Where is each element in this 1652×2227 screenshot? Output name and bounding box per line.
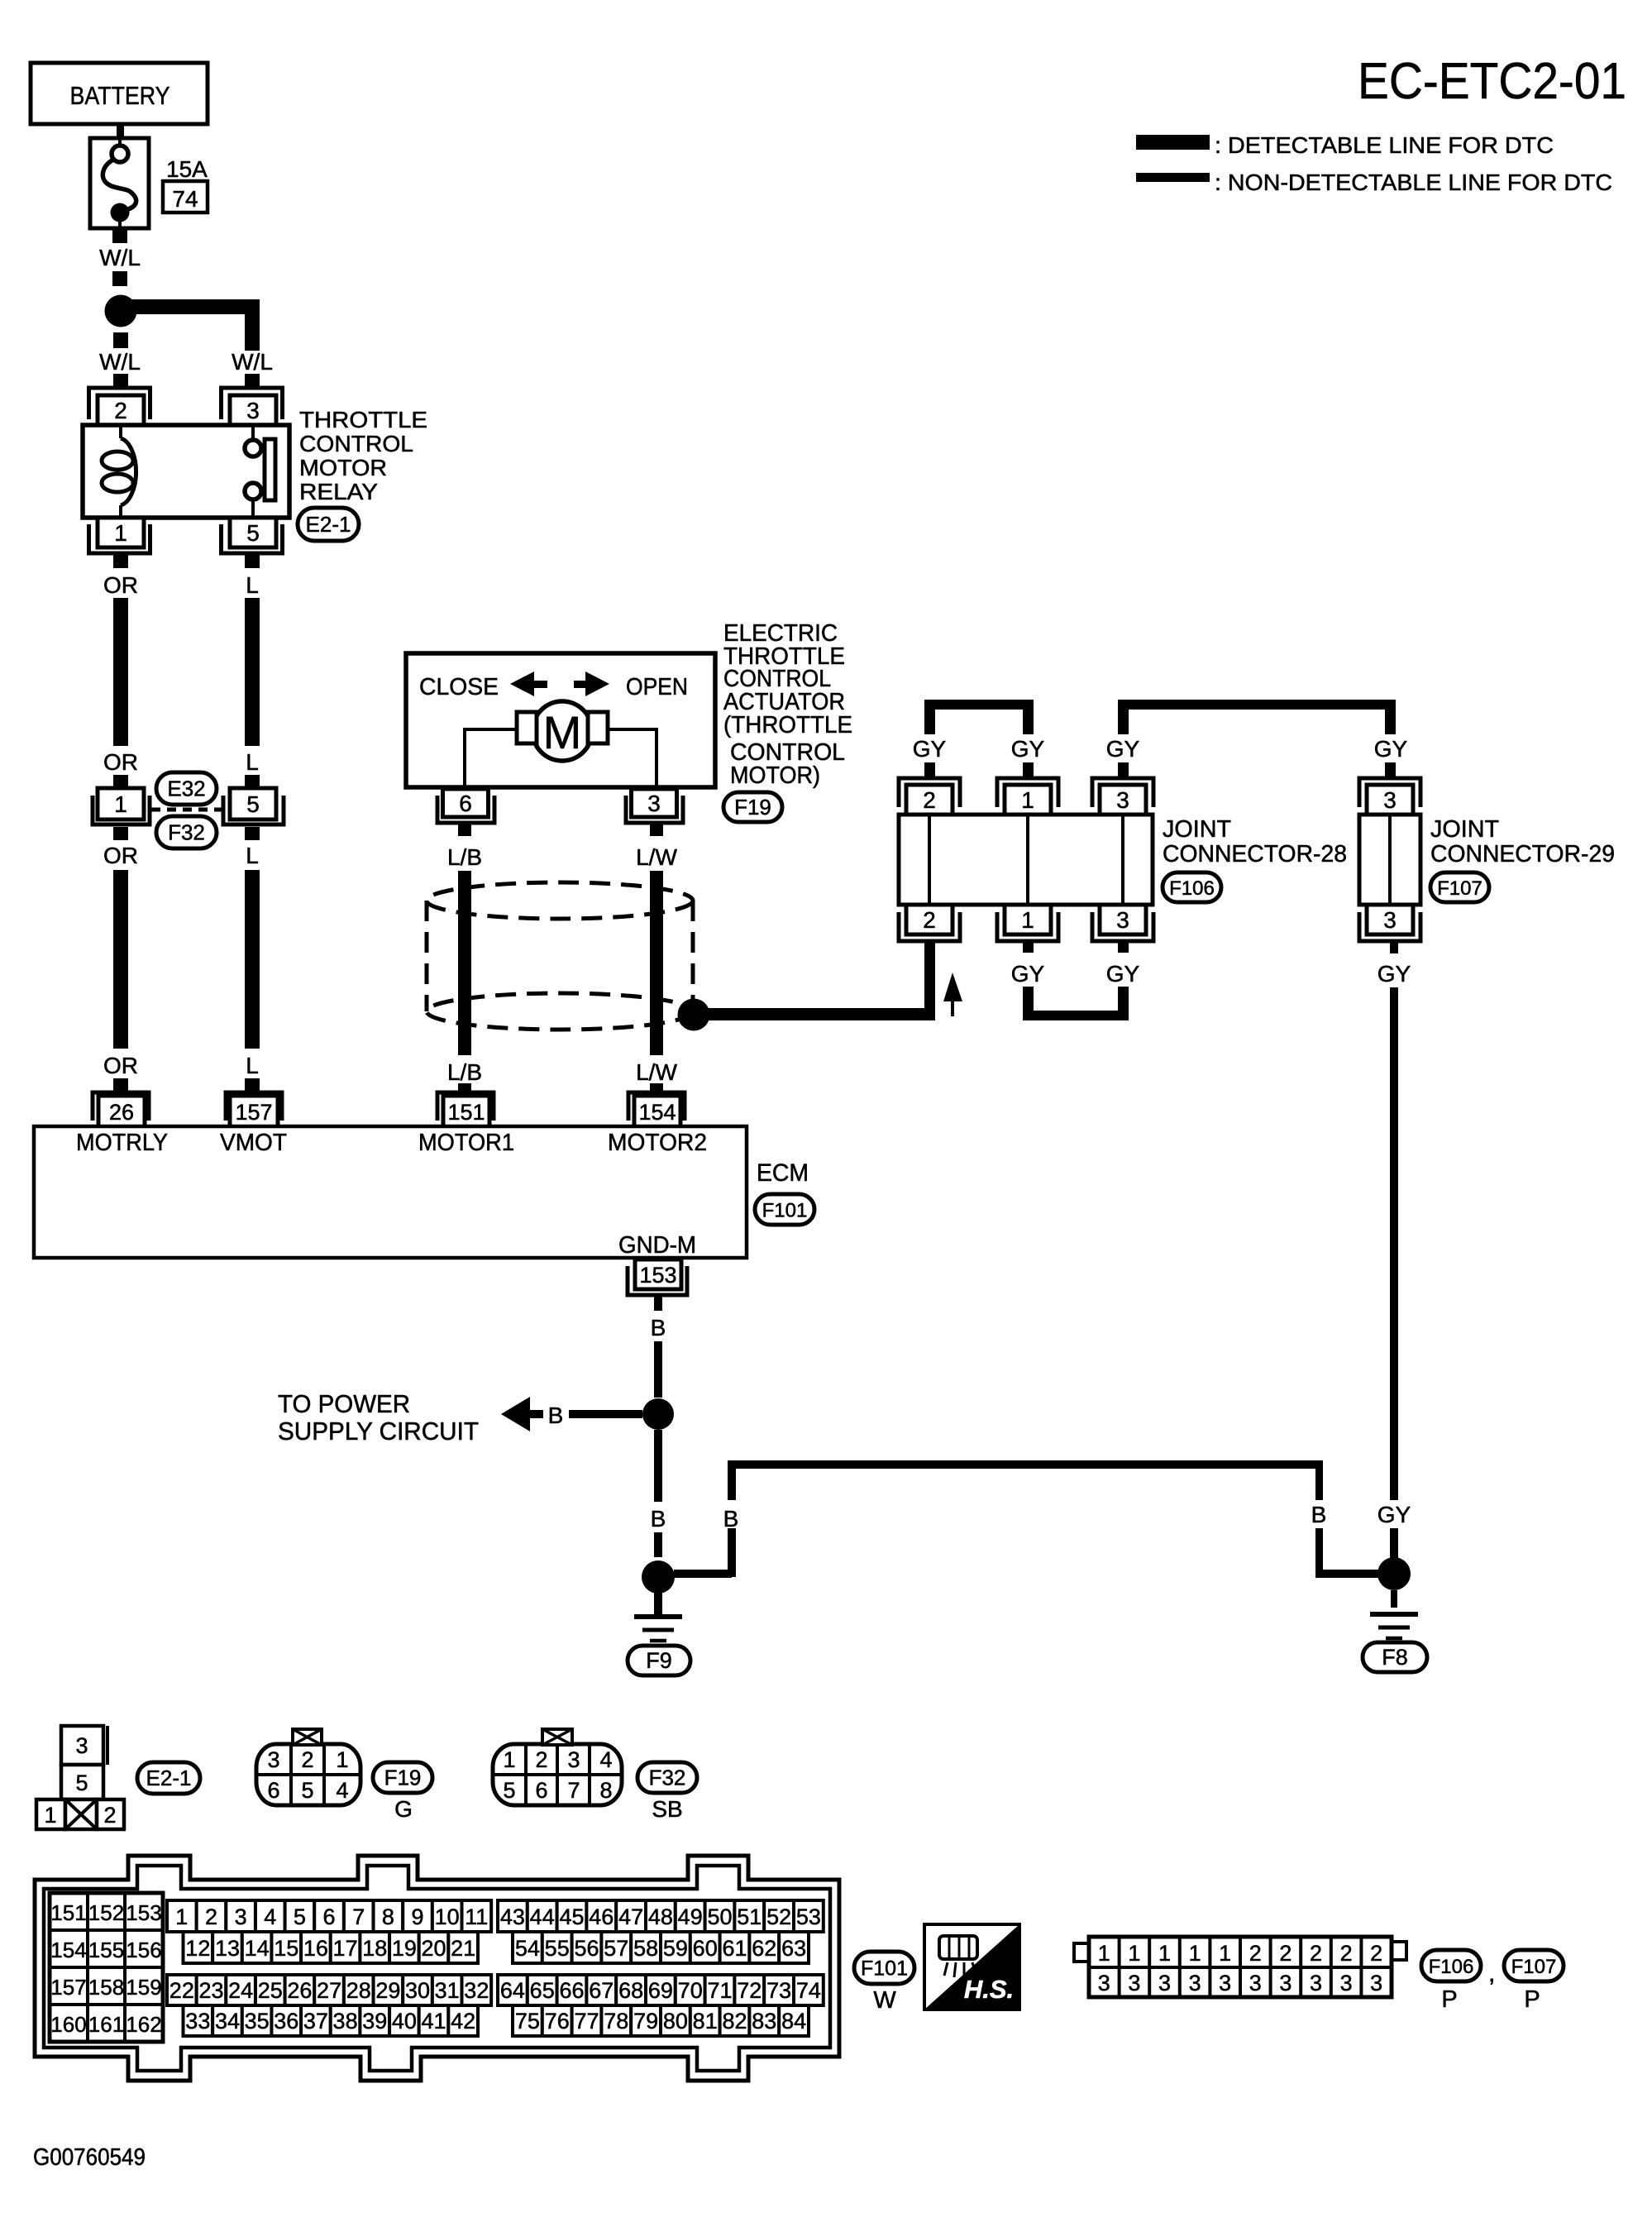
svg-text:68: 68 <box>618 1978 643 2003</box>
svg-text:1: 1 <box>114 520 127 546</box>
svg-text:76: 76 <box>545 2009 570 2033</box>
wire L/W stub to ECM pin 154 <box>650 1083 663 1091</box>
wire L stub below F32 pin 5 <box>245 827 260 840</box>
svg-text:57: 57 <box>604 1936 628 1961</box>
wire B right vertical lower segment <box>1315 1528 1323 1574</box>
actuator open arrow <box>574 681 587 688</box>
svg-text:3: 3 <box>1116 787 1129 813</box>
svg-text:2: 2 <box>923 787 936 813</box>
svg-text:F8: F8 <box>1382 1645 1408 1670</box>
svg-text:GY: GY <box>1011 736 1045 762</box>
svg-text:JOINT: JOINT <box>1163 816 1231 843</box>
wire L/B stub to ECM pin 151 <box>458 1083 471 1091</box>
svg-text:L: L <box>246 843 259 868</box>
ECM pin 157 bracket <box>226 1092 282 1121</box>
svg-text:THROTTLE: THROTTLE <box>299 407 427 432</box>
shield cylinder top ellipse <box>427 882 693 919</box>
svg-text:4: 4 <box>336 1778 348 1803</box>
wire GY stub to ground junction <box>1390 1528 1398 1558</box>
svg-text:E2-1: E2-1 <box>306 512 351 537</box>
joint connector-28 bottom pin 3 box <box>1100 905 1146 934</box>
svg-text:GND-M: GND-M <box>618 1232 696 1259</box>
svg-text:155: 155 <box>88 1938 124 1962</box>
connector E32/F32 pin 1 bracket <box>93 796 150 824</box>
shield cylinder left side <box>425 901 429 1011</box>
svg-text:P: P <box>1524 1986 1540 2013</box>
svg-text:2: 2 <box>1279 1941 1292 1966</box>
svg-text:12: 12 <box>185 1936 210 1961</box>
svg-text:1: 1 <box>1021 787 1034 813</box>
svg-text:3: 3 <box>1189 1971 1201 1995</box>
svg-text:G00760549: G00760549 <box>33 2144 146 2171</box>
svg-text:10: 10 <box>435 1904 460 1929</box>
svg-text:2: 2 <box>205 1904 217 1929</box>
joint connector-28 body F106 <box>899 815 1153 905</box>
svg-text:5: 5 <box>75 1771 88 1795</box>
svg-text:159: 159 <box>126 1975 161 2000</box>
svg-text:49: 49 <box>678 1904 703 1929</box>
svg-text:157: 157 <box>235 1100 272 1125</box>
svg-text:F107: F107 <box>1437 877 1483 900</box>
svg-text:32: 32 <box>464 1978 489 2003</box>
svg-text:69: 69 <box>648 1978 673 2003</box>
connector E32/F32 pin 5 bracket <box>223 796 284 824</box>
svg-text:55: 55 <box>545 1936 570 1961</box>
svg-text:28: 28 <box>346 1978 371 2003</box>
svg-text:70: 70 <box>678 1978 703 2003</box>
svg-text:42: 42 <box>451 2009 475 2033</box>
connector E32/F32 pin 1 box <box>98 788 144 820</box>
wire GY stub F107 top pin 3 <box>1385 762 1396 778</box>
svg-text:3: 3 <box>1310 1971 1322 1995</box>
actuator pin 3 box <box>632 789 677 817</box>
ground symbol F9 <box>654 1593 662 1614</box>
svg-text:1: 1 <box>114 791 127 817</box>
svg-text:29: 29 <box>375 1978 400 2003</box>
svg-text:48: 48 <box>648 1904 673 1929</box>
svg-text:F9: F9 <box>646 1648 672 1673</box>
svg-text:23: 23 <box>198 1978 223 2003</box>
legend non-detectable line sample bar <box>1136 173 1210 182</box>
E2-1 connector face pin 2 cell <box>97 1799 124 1829</box>
wire W/L above junction <box>112 271 127 286</box>
wire GY long run pin 3 top to F107 pin 3 top <box>1118 700 1129 734</box>
svg-text:39: 39 <box>362 2009 387 2033</box>
svg-text:OR: OR <box>103 749 138 775</box>
F19 connector face keyway tab <box>293 1729 322 1745</box>
connector E32/F32 pin 5 box <box>230 788 276 820</box>
ECM pin 151 bracket <box>437 1092 494 1121</box>
svg-text:MOTOR2: MOTOR2 <box>608 1130 707 1156</box>
svg-text:14: 14 <box>245 1936 270 1961</box>
svg-text:77: 77 <box>574 2009 599 2033</box>
svg-text:MOTOR): MOTOR) <box>730 762 820 789</box>
svg-text:59: 59 <box>663 1936 688 1961</box>
svg-text:21: 21 <box>451 1936 475 1961</box>
wire GY long run down <box>1390 987 1398 1500</box>
svg-text:44: 44 <box>530 1904 555 1929</box>
wire OR stub below relay pin 1 <box>113 553 128 568</box>
svg-text:CONNECTOR-29: CONNECTOR-29 <box>1430 841 1615 867</box>
current direction arrow up <box>943 973 962 1001</box>
F101 pins 43-53 row <box>498 1900 528 1932</box>
wire GY stub bottom pin 1 <box>1023 941 1034 953</box>
svg-text:7: 7 <box>352 1904 365 1929</box>
svg-text:F19: F19 <box>734 795 771 820</box>
wire OR stub to ECM pin 26 <box>113 1078 128 1091</box>
wire W/L below junction left <box>113 332 128 348</box>
arrow to power supply circuit <box>501 1397 530 1431</box>
svg-text:3: 3 <box>647 791 661 816</box>
svg-text:2: 2 <box>103 1803 116 1828</box>
joint connector-28 top pin 3 box <box>1100 785 1146 815</box>
svg-text:ECM: ECM <box>757 1159 809 1187</box>
F32 connector face keyway tab <box>542 1729 572 1745</box>
svg-text:67: 67 <box>589 1978 614 2003</box>
wire L stub below relay pin 5 <box>245 553 260 568</box>
svg-text:71: 71 <box>707 1978 732 2003</box>
F32 connector face id <box>637 1762 697 1793</box>
svg-text:3: 3 <box>235 1904 247 1929</box>
svg-text:72: 72 <box>737 1978 762 2003</box>
ground symbol F8 <box>1391 1590 1397 1608</box>
wire B stub below ECM pin 153 <box>654 1297 662 1311</box>
wire L/W run through shield <box>650 871 663 1055</box>
wire B horizontal into F8 ground junction <box>1315 1570 1378 1578</box>
svg-text:1: 1 <box>1158 1941 1171 1966</box>
joint connector-29 id F107 <box>1430 872 1489 902</box>
wire B down to junction <box>654 1341 662 1398</box>
svg-text:36: 36 <box>274 2009 298 2033</box>
joint connector-28 top pin 3 bracket <box>1092 778 1153 807</box>
wire branch to relay pin 3 vertical <box>245 299 260 351</box>
svg-text:3: 3 <box>1279 1971 1292 1995</box>
svg-text:,: , <box>1488 1960 1495 1987</box>
svg-text:3: 3 <box>1158 1971 1171 1995</box>
svg-text:161: 161 <box>88 2012 124 2037</box>
fuse number box 74 <box>163 181 208 213</box>
svg-text:L: L <box>246 749 259 775</box>
actuator pin 3 bracket <box>626 796 683 823</box>
svg-text:83: 83 <box>752 2009 776 2033</box>
svg-text:5: 5 <box>301 1778 313 1803</box>
wire GY stub below F107 pin 3 <box>1390 942 1398 953</box>
wire W/L stub to relay pin 3 <box>245 374 260 388</box>
wire B jumper from ground junction right <box>674 1570 732 1578</box>
relay pin 1 connector bracket <box>89 524 150 553</box>
throttle control motor M symbol <box>532 701 592 761</box>
wire L stub to E32 pin 5 <box>245 775 260 788</box>
svg-text:GY: GY <box>1377 961 1411 987</box>
wire branch to relay pin 3 horizontal <box>121 299 260 314</box>
svg-text:35: 35 <box>245 2009 270 2033</box>
svg-text:82: 82 <box>722 2009 747 2033</box>
svg-text:40: 40 <box>392 2009 417 2033</box>
battery box <box>31 63 208 124</box>
relay pin 3 connector bracket <box>222 388 283 419</box>
svg-text:L/W: L/W <box>636 1059 677 1085</box>
svg-text:5: 5 <box>246 520 260 546</box>
svg-text:20: 20 <box>422 1936 446 1961</box>
joint connector-28 bottom pin 2 box <box>906 905 953 934</box>
wire L/W stub below actuator pin 3 <box>650 824 663 836</box>
F101 pins 75-84 row <box>513 2005 542 2036</box>
svg-text:3: 3 <box>267 1747 279 1772</box>
svg-text:33: 33 <box>185 2009 210 2033</box>
wire B below junction <box>654 1430 662 1502</box>
joint connector-28 bottom pin 1 box <box>1005 905 1051 934</box>
svg-text:3: 3 <box>246 398 260 423</box>
junction node shield drain <box>678 999 710 1031</box>
F19 connector face body <box>256 1744 360 1805</box>
svg-text:41: 41 <box>422 2009 446 2033</box>
svg-text:MOTOR1: MOTOR1 <box>418 1130 514 1156</box>
svg-text:160: 160 <box>50 2012 86 2037</box>
svg-text:L/B: L/B <box>447 844 482 870</box>
relay contact <box>251 425 255 440</box>
svg-text:M: M <box>543 706 582 758</box>
harness side H.S. badge <box>924 1924 1019 2010</box>
wire OR stub to E32 pin 1 <box>113 775 128 788</box>
svg-text:CLOSE: CLOSE <box>419 674 499 700</box>
joint connector-28 top pin 2 box <box>906 785 953 815</box>
F101 pins 33-42 row <box>184 2005 213 2036</box>
svg-text:F106: F106 <box>1169 877 1215 900</box>
wire GY stub top pin 3 <box>1118 762 1129 778</box>
svg-text:31: 31 <box>435 1978 460 2003</box>
wire GY stub top pin 1 <box>1023 762 1034 778</box>
svg-text:154: 154 <box>638 1100 676 1125</box>
svg-text:B: B <box>651 1315 666 1341</box>
joint connector face grid and numbers <box>1118 1937 1121 1997</box>
svg-text:1: 1 <box>1098 1941 1110 1966</box>
svg-text:B: B <box>723 1506 739 1532</box>
svg-text:19: 19 <box>392 1936 417 1961</box>
joint connector-28 bottom pin 3 bracket <box>1092 912 1153 941</box>
svg-text:9: 9 <box>412 1904 424 1929</box>
svg-text:162: 162 <box>126 2012 161 2037</box>
wire GY vertical to joint connector-28 pin 2 <box>924 942 935 1020</box>
wire B vertical right of junction lower <box>728 1528 736 1577</box>
relay K1 throttle control motor relay body <box>83 425 289 518</box>
svg-text:4: 4 <box>264 1904 276 1929</box>
svg-text:50: 50 <box>707 1904 732 1929</box>
svg-text:P: P <box>1441 1986 1457 2013</box>
svg-text:61: 61 <box>722 1936 747 1961</box>
svg-text:1: 1 <box>44 1803 56 1828</box>
svg-text:1: 1 <box>336 1747 348 1772</box>
connector id F32 oval <box>156 816 217 848</box>
ECM pin 153 box <box>635 1259 681 1289</box>
joint connector-28 top pin 1 bracket <box>997 778 1058 807</box>
svg-text:13: 13 <box>215 1936 240 1961</box>
ECM pin 153 bracket <box>628 1266 687 1295</box>
F19 connector face id <box>373 1762 432 1793</box>
svg-text:46: 46 <box>589 1904 614 1929</box>
relay pin 5 box <box>230 518 276 547</box>
svg-text:L/W: L/W <box>636 844 677 870</box>
F101 ECM connector face inner outline <box>44 1866 830 2071</box>
svg-text:3: 3 <box>1340 1971 1353 1995</box>
svg-text:34: 34 <box>215 2009 240 2033</box>
svg-text:L: L <box>246 572 259 598</box>
svg-text:3: 3 <box>567 1747 580 1772</box>
svg-text:62: 62 <box>752 1936 776 1961</box>
svg-text:1: 1 <box>1128 1941 1140 1966</box>
shield cylinder bottom ellipse <box>427 993 693 1030</box>
svg-text:F32: F32 <box>649 1766 686 1790</box>
wire motor to pin 3 inside actuator <box>608 729 657 787</box>
svg-text:156: 156 <box>126 1938 161 1962</box>
svg-text:5: 5 <box>503 1778 515 1803</box>
relay pin 1 box <box>98 518 144 547</box>
svg-text:OR: OR <box>103 843 138 868</box>
svg-text:L/B: L/B <box>447 1059 482 1085</box>
junction node GY/B ground F8 <box>1377 1557 1411 1590</box>
joint connector-28 id F106 <box>1163 872 1221 902</box>
ECM pin 26 bracket <box>93 1092 149 1121</box>
svg-text:26: 26 <box>287 1978 312 2003</box>
svg-text:74: 74 <box>796 1978 821 2003</box>
dashed separator between E32 and F32 pins <box>151 808 222 812</box>
svg-text:45: 45 <box>559 1904 584 1929</box>
svg-text:8: 8 <box>599 1778 612 1803</box>
svg-text:1: 1 <box>503 1747 515 1772</box>
wire B horizontal long run to right <box>728 1460 1323 1469</box>
svg-text:18: 18 <box>362 1936 387 1961</box>
F101 pins 22-32 row <box>167 1975 197 2005</box>
svg-text:78: 78 <box>604 2009 628 2033</box>
svg-text:B: B <box>548 1403 564 1428</box>
relay pin 2 box <box>98 395 144 425</box>
svg-text:OPEN: OPEN <box>626 674 688 700</box>
ECM pin 26 box <box>98 1096 145 1127</box>
svg-text:F101: F101 <box>762 1200 808 1222</box>
relay pin 2 connector bracket <box>89 388 150 419</box>
joint connector face id F106 <box>1421 1950 1481 1981</box>
F101 ECM connector face outer outline <box>35 1856 839 2081</box>
E2-1 connector face pin 3 cell <box>61 1726 103 1765</box>
shield cylinder right side <box>691 901 695 1001</box>
svg-text:26: 26 <box>109 1100 134 1125</box>
wire L/B run through shield <box>458 871 471 1055</box>
wire GY stub bottom pin 3 <box>1118 941 1129 953</box>
ground id F9 <box>628 1646 690 1675</box>
svg-text:F19: F19 <box>384 1766 422 1790</box>
svg-text:60: 60 <box>693 1936 718 1961</box>
joint connector-29 bottom pin 3 bracket <box>1359 912 1420 941</box>
junction node B to power supply <box>642 1398 674 1430</box>
svg-text:22: 22 <box>169 1978 194 2003</box>
relay coil <box>119 425 122 438</box>
electric throttle control actuator box F19 <box>406 653 715 787</box>
svg-text:6: 6 <box>459 791 472 816</box>
svg-text:17: 17 <box>333 1936 358 1961</box>
E2-1 connector face pin 1 cell <box>36 1799 65 1829</box>
svg-text:81: 81 <box>693 2009 718 2033</box>
svg-text:3: 3 <box>1370 1971 1382 1995</box>
svg-text:GY: GY <box>1011 961 1045 987</box>
wire B right vertical upper segment <box>1315 1469 1323 1500</box>
svg-text:E32: E32 <box>167 777 205 801</box>
relay pin 5 connector bracket <box>222 524 283 553</box>
junction node B ground <box>642 1560 675 1594</box>
E2-1 connector face pin 5 cell <box>61 1765 103 1799</box>
svg-text:TO POWER: TO POWER <box>278 1389 410 1418</box>
ECM box F101 <box>34 1126 747 1258</box>
wire OR run 2 <box>113 870 128 1049</box>
svg-text:51: 51 <box>737 1904 762 1929</box>
wire OR stub below F32 pin 1 <box>113 827 128 840</box>
svg-text:151: 151 <box>447 1100 485 1125</box>
svg-text:W/L: W/L <box>232 349 273 375</box>
svg-text:EC-ETC2-01: EC-ETC2-01 <box>1358 53 1626 110</box>
svg-text:F101: F101 <box>861 1957 908 1981</box>
svg-text:38: 38 <box>333 2009 358 2033</box>
svg-text:74: 74 <box>172 186 198 212</box>
svg-text:2: 2 <box>1249 1941 1262 1966</box>
svg-text:153: 153 <box>126 1900 161 1925</box>
svg-text:27: 27 <box>317 1978 341 2003</box>
svg-text:F107: F107 <box>1511 1956 1557 1978</box>
svg-text:G: G <box>394 1796 413 1822</box>
svg-text:3: 3 <box>1128 1971 1140 1995</box>
svg-text:152: 152 <box>88 1900 124 1925</box>
svg-text:151: 151 <box>50 1900 86 1925</box>
svg-text:5: 5 <box>294 1904 306 1929</box>
svg-text:B: B <box>1311 1502 1327 1527</box>
joint connector-29 top pin 3 bracket <box>1359 778 1420 807</box>
F32 connector face grid <box>524 1744 528 1805</box>
wire OR run 1 <box>113 598 128 746</box>
svg-text:84: 84 <box>781 2009 806 2033</box>
svg-text:8: 8 <box>382 1904 394 1929</box>
wire B vertical right of junction upper <box>728 1460 736 1500</box>
wire B horizontal to power supply circuit <box>569 1410 642 1418</box>
F32 connector face body <box>493 1744 622 1805</box>
svg-text:GY: GY <box>1377 1502 1411 1527</box>
ECM pin 151 box <box>443 1096 489 1127</box>
svg-text:54: 54 <box>515 1936 540 1961</box>
svg-text:52: 52 <box>766 1904 791 1929</box>
fuse 15A 74 symbol <box>90 138 149 228</box>
wire L/B stub below actuator pin 6 <box>458 824 471 836</box>
joint connector-28 top pin 1 box <box>1005 785 1051 815</box>
joint connector face id F107 <box>1504 1950 1564 1981</box>
svg-text:37: 37 <box>303 2009 328 2033</box>
svg-text:: DETECTABLE LINE FOR DTC: : DETECTABLE LINE FOR DTC <box>1215 132 1554 158</box>
joint connector-29 body F107 <box>1359 815 1420 905</box>
svg-text:2: 2 <box>923 907 936 933</box>
svg-text:OR: OR <box>103 1053 138 1078</box>
relay connector id E2-1 <box>298 508 359 541</box>
ground id F8 <box>1363 1642 1427 1672</box>
actuator close arrow <box>510 671 534 696</box>
svg-text:2: 2 <box>535 1747 547 1772</box>
svg-text:53: 53 <box>796 1904 821 1929</box>
wire B stub to ground junction <box>654 1532 662 1557</box>
svg-text:1: 1 <box>1021 907 1034 933</box>
wire GY jumper pins 2-1 top <box>924 700 935 734</box>
ECM pin 154 bracket <box>628 1092 685 1121</box>
svg-text:2: 2 <box>114 398 127 423</box>
svg-text:GY: GY <box>1106 961 1140 987</box>
F101 pins 64-74 row <box>498 1975 528 2005</box>
joint connector face strip body <box>1074 1943 1089 1962</box>
actuator pin 6 bracket <box>437 796 494 823</box>
svg-text:GY: GY <box>1374 736 1408 762</box>
svg-text:2: 2 <box>1340 1941 1353 1966</box>
